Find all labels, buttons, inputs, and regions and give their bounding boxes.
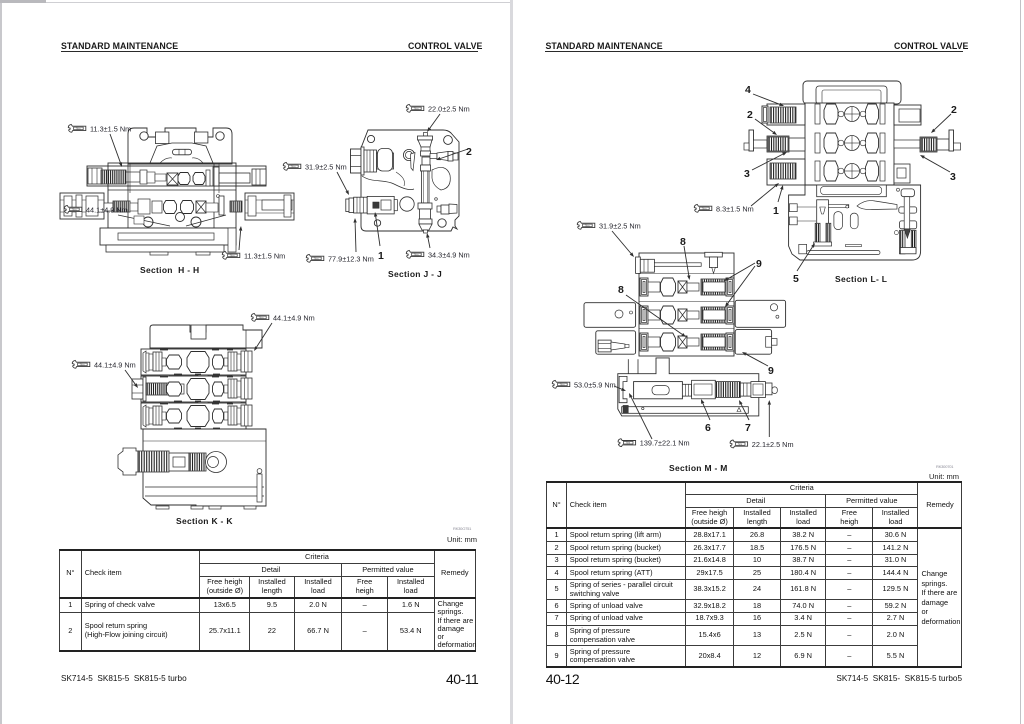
svg-text:2: 2 bbox=[951, 104, 957, 116]
svg-text:53.0±5.9 Nm: 53.0±5.9 Nm bbox=[574, 380, 616, 389]
callout 22.0±2.5 Nm bbox=[406, 104, 469, 132]
svg-text:6: 6 bbox=[705, 422, 711, 434]
label 3 right bbox=[920, 155, 956, 183]
section L-L row1 right bbox=[894, 105, 921, 125]
svg-text:Nm: Nm bbox=[72, 207, 76, 211]
svg-text:9: 9 bbox=[756, 258, 762, 270]
section M-M body block bbox=[639, 253, 734, 356]
section M-M left relief valve small bbox=[598, 340, 629, 352]
svg-text:2: 2 bbox=[747, 109, 753, 121]
svg-text:44.1±4.9 Nm: 44.1±4.9 Nm bbox=[273, 313, 315, 322]
svg-text:8: 8 bbox=[680, 236, 686, 248]
callout 11.3±1.5 Nm bottom bbox=[222, 226, 285, 260]
svg-text:31.9±2.5 Nm: 31.9±2.5 Nm bbox=[599, 221, 641, 230]
section L-L row3 right bbox=[894, 164, 910, 183]
callout 11.3±1.5 Nm top bbox=[68, 124, 131, 167]
section L-L rod and cavities bbox=[828, 201, 897, 230]
svg-text:Nm: Nm bbox=[585, 223, 589, 227]
section L-L body row 2 bbox=[815, 133, 885, 153]
svg-text:31.9±2.5 Nm: 31.9±2.5 Nm bbox=[305, 162, 347, 171]
svg-text:22.1±2.5 Nm: 22.1±2.5 Nm bbox=[752, 440, 794, 449]
section L-L bottom rod bbox=[799, 244, 880, 254]
label 2 left bbox=[747, 109, 777, 135]
section K-K row gap 1 bbox=[160, 375, 241, 379]
svg-text:22.0±2.5 Nm: 22.0±2.5 Nm bbox=[428, 104, 470, 113]
callout 34.3±4.9 Nm bbox=[406, 233, 469, 259]
right page header bbox=[546, 41, 663, 51]
section J-J lower spool 1 bbox=[346, 196, 414, 214]
section L-L row3 left bbox=[767, 159, 805, 185]
section J-J right small valve bbox=[437, 204, 457, 214]
left page footer bbox=[61, 674, 187, 683]
callout 44.1±4.9 Nm top right bbox=[251, 313, 314, 351]
callout 8.3±1.5 Nm bbox=[694, 183, 779, 213]
section M-M lower body bbox=[618, 358, 759, 416]
section L-L unload valve 5 bbox=[814, 200, 832, 246]
label 8 left bbox=[618, 284, 686, 337]
label 7 bbox=[739, 400, 751, 434]
svg-text:Nm: Nm bbox=[230, 253, 234, 257]
section L-L top section bbox=[803, 81, 901, 104]
left unit label bbox=[453, 526, 471, 531]
section L-L comp valve right bbox=[894, 188, 916, 254]
label 1 bbox=[374, 212, 384, 262]
svg-text:Nm: Nm bbox=[560, 382, 564, 386]
section L-L body row 1 bbox=[815, 104, 885, 124]
section H-H bottom plate bbox=[100, 228, 236, 255]
section H-H upper spool band bbox=[87, 166, 266, 186]
svg-text:Nm: Nm bbox=[76, 126, 80, 130]
section L-L body row 3 bbox=[815, 161, 885, 181]
svg-text:9: 9 bbox=[768, 365, 774, 377]
label 9 right bbox=[724, 258, 762, 307]
callout 22.1±2.5 Nm bbox=[730, 400, 793, 449]
section K-K row gap 2 bbox=[160, 402, 241, 406]
left page header bbox=[61, 41, 178, 51]
section M-M bottom rail bbox=[622, 405, 749, 413]
svg-text:Nm: Nm bbox=[314, 256, 318, 260]
callout 44.1±4.9 Nm left bbox=[72, 360, 138, 388]
right unit label bbox=[936, 464, 953, 469]
svg-text:77.9±12.3 Nm: 77.9±12.3 Nm bbox=[328, 254, 374, 263]
section M-M top poppet bbox=[705, 252, 723, 273]
section K-K spool row 3 bbox=[141, 402, 252, 429]
section J-J upper cavity bbox=[362, 149, 415, 190]
svg-text:3: 3 bbox=[744, 168, 750, 180]
svg-text:11.3±1.5 Nm: 11.3±1.5 Nm bbox=[244, 251, 285, 260]
callout 139.7±22.1 Nm bbox=[618, 393, 690, 448]
section J-J left boss bbox=[351, 147, 394, 175]
svg-text:Nm: Nm bbox=[80, 362, 84, 366]
section M-M right plates bbox=[735, 300, 785, 354]
section K-K lower body bbox=[143, 429, 266, 509]
section L-L row2 right bbox=[894, 130, 961, 152]
svg-text:Nm: Nm bbox=[626, 441, 630, 445]
label 9 bottom bbox=[742, 352, 774, 377]
section L-L row2 left bbox=[744, 130, 805, 152]
section M-M spool row 1 bbox=[639, 274, 734, 297]
svg-text:11.3±1.5 Nm: 11.3±1.5 Nm bbox=[90, 124, 131, 133]
section L-L lower body bbox=[789, 185, 921, 260]
section M-M left plates bbox=[584, 303, 636, 354]
section M-M spool row 2 bbox=[639, 302, 734, 325]
section M-M top adjuster bbox=[636, 257, 702, 273]
section J-J vertical spool bbox=[418, 133, 433, 234]
svg-text:3: 3 bbox=[950, 171, 956, 183]
svg-text:8.3±1.5 Nm: 8.3±1.5 Nm bbox=[716, 204, 754, 213]
right page footer bbox=[546, 671, 579, 687]
label 6 bbox=[701, 399, 711, 434]
label 2 bbox=[436, 146, 472, 160]
section H-H lower spool band bbox=[60, 193, 294, 220]
svg-text:8: 8 bbox=[618, 284, 624, 296]
callout 77.9±12.3 Nm bbox=[306, 218, 374, 263]
label 1 bbox=[773, 185, 783, 217]
svg-text:Nm: Nm bbox=[702, 206, 706, 210]
svg-text:44.1±4.9 Nm: 44.1±4.9 Nm bbox=[94, 360, 136, 369]
section L-L body bbox=[805, 103, 894, 185]
label 3 left bbox=[744, 152, 787, 180]
section M-M relief valve assembly bbox=[619, 376, 777, 402]
svg-text:Nm: Nm bbox=[291, 164, 295, 168]
svg-text:Nm: Nm bbox=[414, 106, 418, 110]
section H-H top housing bbox=[128, 128, 232, 164]
svg-text:Nm: Nm bbox=[414, 252, 418, 256]
section J-J right cavity bbox=[432, 167, 450, 200]
label 8 top bbox=[680, 236, 690, 280]
svg-text:34.3±4.9 Nm: 34.3±4.9 Nm bbox=[428, 250, 470, 259]
section K-K spool row 1 bbox=[141, 348, 252, 375]
svg-text:Nm: Nm bbox=[738, 442, 742, 446]
label 4 bbox=[745, 84, 784, 106]
left criteria table bbox=[59, 549, 476, 652]
svg-text:7: 7 bbox=[745, 422, 751, 434]
svg-text:4: 4 bbox=[745, 84, 751, 96]
section J-J right connector 2 bbox=[430, 152, 458, 162]
callout 44.1±4.9 Nm left overlap bbox=[64, 205, 127, 214]
section K-K spool row 2 bbox=[132, 375, 252, 402]
section H-H main body bbox=[108, 163, 236, 228]
section L-L row1 left bbox=[762, 104, 805, 125]
svg-text:Nm: Nm bbox=[259, 315, 263, 319]
section J-J body bbox=[361, 130, 459, 231]
section M-M spool row 3 bbox=[639, 329, 734, 352]
label 5 bbox=[793, 243, 815, 285]
callout 31.9±2.5 Nm bbox=[283, 162, 349, 195]
svg-text:44.1±4.9 Nm: 44.1±4.9 Nm bbox=[86, 205, 128, 214]
right criteria table bbox=[546, 481, 962, 668]
svg-text:1: 1 bbox=[378, 250, 384, 262]
callout 53.0±5.9 Nm bbox=[552, 380, 626, 391]
svg-text:139.7±22.1 Nm: 139.7±22.1 Nm bbox=[640, 439, 690, 448]
label 2 right bbox=[931, 104, 957, 133]
section K-K top block bbox=[150, 325, 262, 348]
section K-K relief valve bbox=[118, 448, 227, 475]
svg-text:2: 2 bbox=[466, 146, 472, 158]
callout 31.9±2.5 Nm bbox=[577, 221, 640, 257]
